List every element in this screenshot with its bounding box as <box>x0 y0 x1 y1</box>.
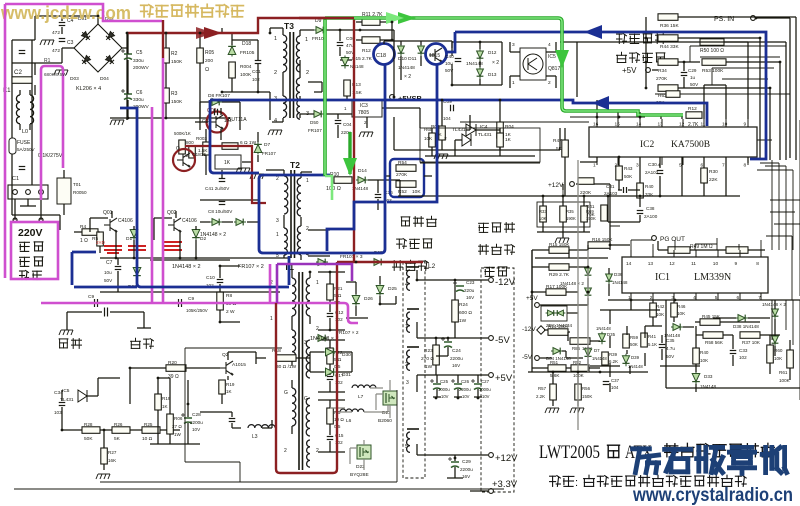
svg-text:Q817: Q817 <box>548 66 560 72</box>
svg-text:1N4148: 1N4148 <box>596 326 611 331</box>
winding L2 winding 5 <box>407 432 410 452</box>
resistor R04 1K <box>497 122 504 138</box>
svg-text:C26: C26 <box>461 379 470 384</box>
svg-text:TL431: TL431 <box>452 127 466 133</box>
svg-text:C4106: C4106 <box>182 218 197 224</box>
svg-text:D8 FR107: D8 FR107 <box>208 93 230 99</box>
wire <box>220 266 240 322</box>
winding T3 primary lower <box>283 96 287 118</box>
capacitor C13 102 <box>327 377 334 380</box>
svg-text:1815: 1815 <box>429 53 440 59</box>
resistor R49 1M <box>668 247 690 254</box>
highlight trace purple T1 <box>277 264 352 281</box>
diode D35 <box>598 332 605 344</box>
svg-text:R26: R26 <box>114 422 123 427</box>
svg-text:500K/1K: 500K/1K <box>174 131 191 136</box>
resistor R19b <box>219 380 226 394</box>
wire <box>774 300 776 356</box>
winding T1 sec 1 <box>306 278 310 316</box>
svg-text:T01: T01 <box>73 182 81 187</box>
svg-text:R34: R34 <box>658 68 667 74</box>
resistor R24 <box>452 300 459 322</box>
wire <box>360 30 560 150</box>
svg-text:10K: 10K <box>424 136 433 141</box>
svg-text:10: 10 <box>722 122 728 128</box>
svg-text:R2: R2 <box>171 51 178 57</box>
resistor R2 <box>163 48 170 63</box>
ground <box>40 40 54 45</box>
wire <box>420 122 620 250</box>
svg-text:R17 100K: R17 100K <box>546 284 568 290</box>
svg-text:270K: 270K <box>656 76 668 82</box>
svg-text:R15 150K: R15 150K <box>549 242 570 247</box>
svg-text:R04: R04 <box>505 124 514 130</box>
terminal +12V mid <box>570 182 575 187</box>
svg-text:4: 4 <box>548 42 551 48</box>
capacitor C6 330u/200WV <box>121 89 132 100</box>
svg-text:10V: 10V <box>192 427 201 432</box>
highlight trace green T3 drop center <box>324 20 326 175</box>
svg-text:16K: 16K <box>108 458 117 463</box>
wire <box>14 482 504 489</box>
svg-text:R29 2.7K: R29 2.7K <box>549 272 570 278</box>
ground <box>545 408 559 413</box>
wire <box>318 272 345 330</box>
wire <box>580 157 748 222</box>
svg-text:C2: C2 <box>14 69 22 76</box>
svg-text:220K: 220K <box>580 190 592 196</box>
svg-text:10K: 10K <box>539 216 547 221</box>
highlight trace navy bottom H <box>74 286 137 289</box>
winding T1 primary upper <box>292 278 296 316</box>
svg-text:10V: 10V <box>441 394 449 399</box>
label cold-ground <box>131 338 141 348</box>
diode D29 <box>133 266 141 279</box>
svg-text:13: 13 <box>658 122 664 128</box>
resistor R25 <box>142 427 160 434</box>
IC1 pins <box>630 293 632 300</box>
svg-text:D1: D1 <box>126 236 132 242</box>
wire <box>300 30 312 118</box>
diode D15 1N4148 <box>341 56 349 69</box>
resistor R52 <box>571 365 589 372</box>
svg-text:680K/0.5W: 680K/0.5W <box>44 72 67 77</box>
svg-text:1: 1 <box>305 37 308 43</box>
svg-text:2A102: 2A102 <box>645 170 659 175</box>
wire <box>608 300 800 388</box>
optocoupler IC5 PC817 <box>520 48 546 80</box>
wire <box>532 245 630 300</box>
navy arrow left <box>584 25 602 39</box>
diode D9 FR107 <box>314 27 326 34</box>
svg-text:R37 10K: R37 10K <box>742 340 761 345</box>
capacitor C8 10u/50V <box>219 202 226 205</box>
svg-text:R59: R59 <box>630 335 639 340</box>
diode D36a <box>585 266 592 278</box>
svg-text:1W: 1W <box>425 364 433 370</box>
svg-text:3: 3 <box>406 380 409 386</box>
highlight trace navy T2 loop <box>259 175 385 253</box>
transformer T01 R0050 <box>57 178 71 204</box>
diode D13 <box>477 67 484 79</box>
svg-text:IC2: IC2 <box>640 140 655 150</box>
capacitor C3 <box>59 39 66 42</box>
resistor R28 <box>82 427 100 434</box>
capacitor C15 102 <box>327 437 334 440</box>
wire <box>15 199 41 220</box>
svg-text:150K: 150K <box>171 59 183 65</box>
svg-text:KL206 × 4: KL206 × 4 <box>76 86 101 92</box>
svg-text:10K: 10K <box>700 358 709 363</box>
wire <box>537 184 590 238</box>
wire <box>206 129 252 178</box>
svg-text:R49 1M Ω: R49 1M Ω <box>690 244 713 250</box>
resistor R47 5K <box>562 140 569 157</box>
capacitor C25 1000u/10V <box>430 379 441 390</box>
svg-text:R52: R52 <box>398 189 407 195</box>
wire <box>430 100 540 150</box>
highlight trace maroon Q link <box>185 146 266 203</box>
svg-text:104: 104 <box>224 118 232 123</box>
svg-text:D25: D25 <box>388 286 397 292</box>
svg-text:220u: 220u <box>464 288 475 293</box>
wire <box>12 215 60 230</box>
highlight box R54 <box>390 159 424 197</box>
svg-text:D03: D03 <box>70 76 79 82</box>
resistor R06 <box>167 414 174 434</box>
terminal -12V out <box>489 278 494 283</box>
svg-text:7: 7 <box>722 163 725 169</box>
svg-text:L2: L2 <box>428 263 436 270</box>
svg-text:R0050: R0050 <box>73 190 87 195</box>
resistor R001 6R 1W <box>222 143 238 150</box>
resistor R18 <box>276 355 296 362</box>
ground <box>555 238 569 243</box>
svg-text:200WV: 200WV <box>133 65 150 71</box>
diode D30 <box>324 348 337 356</box>
svg-text:2A100: 2A100 <box>644 214 658 219</box>
svg-text:-5V: -5V <box>522 354 533 361</box>
label (chinese) <box>20 242 30 251</box>
capacitor C10 102 <box>217 280 224 283</box>
svg-text:R57: R57 <box>538 386 547 391</box>
diode D5 <box>210 219 222 226</box>
transistor Q2 A1015 <box>220 361 233 375</box>
wire <box>690 46 786 79</box>
svg-text:22K: 22K <box>709 177 718 183</box>
resistor R12b 2.7K <box>686 112 702 119</box>
svg-text:C4106: C4106 <box>118 218 133 224</box>
wire <box>165 33 167 118</box>
capacitor C28 2200u/10V <box>181 413 192 424</box>
wire <box>240 390 397 482</box>
winding T2 secondary lower <box>297 226 301 255</box>
wire <box>130 352 352 404</box>
svg-text:A1015: A1015 <box>232 362 246 368</box>
svg-text:R61: R61 <box>779 370 788 375</box>
wire <box>200 102 240 130</box>
wire <box>292 270 310 434</box>
svg-text:4: 4 <box>274 118 277 124</box>
diode D26 <box>352 294 360 307</box>
wire <box>318 400 345 452</box>
highlight trace green light tail <box>325 176 332 200</box>
highlight trace maroon stub <box>162 20 164 58</box>
svg-text:C3: C3 <box>67 40 74 46</box>
box R33/R35/R69 <box>537 202 590 227</box>
resistor R53b 15K <box>726 247 748 254</box>
highlight circle Q03 <box>207 112 228 133</box>
terminal PS.IN <box>751 16 756 21</box>
highlight trace magenta top <box>5 4 162 21</box>
svg-text:2200u: 2200u <box>460 467 473 472</box>
svg-text:11: 11 <box>691 261 696 267</box>
wire <box>150 378 200 444</box>
capacitor C35 4.7u/50V <box>659 345 666 348</box>
svg-text:12: 12 <box>669 261 675 267</box>
MOSFET D23 B2060 <box>383 391 397 405</box>
svg-text:15: 15 <box>615 122 621 128</box>
winding T2 secondary upper <box>297 178 301 216</box>
svg-text:R58 56K: R58 56K <box>705 340 724 345</box>
svg-text:190K: 190K <box>566 216 576 221</box>
MOSFET D22 BYQ28E <box>357 445 371 459</box>
svg-text:+12V: +12V <box>548 182 564 189</box>
svg-text:-5V: -5V <box>495 335 510 346</box>
svg-text:Q02: Q02 <box>167 210 177 216</box>
svg-text:10K: 10K <box>677 311 686 316</box>
label power-factor 3 <box>393 261 403 271</box>
svg-text:L3: L3 <box>252 434 258 440</box>
capacitor C02 104 <box>215 109 218 116</box>
resistor R68 <box>578 178 594 185</box>
wire <box>195 108 221 140</box>
wire <box>766 200 800 300</box>
svg-text:R43: R43 <box>624 166 633 171</box>
svg-text:3: 3 <box>276 218 279 224</box>
highlight trace magenta bottom <box>41 303 358 323</box>
terminal +5V <box>646 68 651 73</box>
label power-factor 2 <box>397 239 407 249</box>
wire <box>12 40 32 215</box>
svg-text:D30: D30 <box>342 352 351 358</box>
terminal -12V diamond <box>537 326 545 334</box>
ground <box>434 154 448 159</box>
svg-text:D2: D2 <box>200 236 206 242</box>
resistor R51 <box>548 365 566 372</box>
svg-text:D14: D14 <box>358 168 367 174</box>
resistor R35 <box>560 206 567 222</box>
wire <box>772 120 800 260</box>
navy arrow left 2 <box>592 96 609 110</box>
svg-text:L0: L0 <box>22 129 28 135</box>
svg-text:KA7500B: KA7500B <box>671 140 710 150</box>
svg-text:5: 5 <box>405 444 408 450</box>
inductor L7 <box>352 385 376 388</box>
svg-text:R004: R004 <box>240 64 252 70</box>
wire <box>63 170 65 215</box>
svg-text:C40: C40 <box>445 54 454 60</box>
svg-text:+5VSB: +5VSB <box>398 94 423 103</box>
terminal +12V out <box>489 453 494 458</box>
winding T1 sec 2 <box>306 340 310 378</box>
wire <box>658 241 765 250</box>
watermark (gold chinese) <box>141 5 153 17</box>
diode Dt2 <box>316 335 328 342</box>
capacitor C1 <box>19 167 26 170</box>
green arrow right <box>398 12 416 24</box>
svg-text:102: 102 <box>739 355 747 360</box>
svg-text:2: 2 <box>306 70 309 76</box>
svg-text:10V: 10V <box>462 394 470 399</box>
diode D10 <box>398 44 405 56</box>
svg-text:C5: C5 <box>136 50 143 56</box>
highlight trace purple drop <box>276 264 279 303</box>
svg-text:1000u: 1000u <box>438 387 450 392</box>
svg-text:10K: 10K <box>412 189 421 195</box>
svg-text:330u: 330u <box>133 58 144 64</box>
terminal +3.3V out <box>489 489 494 494</box>
highlight trace green main center <box>325 18 683 115</box>
svg-text:1K: 1K <box>226 389 233 394</box>
highlight trace magenta riser <box>269 264 272 303</box>
svg-text:R51: R51 <box>550 360 559 365</box>
resistor R61 <box>787 350 794 368</box>
transistor Q C1815 circled navy <box>429 48 442 62</box>
svg-text:3: 3 <box>304 340 307 346</box>
ground <box>110 120 124 125</box>
watermark kuangshi shouyinji (navy chinese) <box>633 449 659 473</box>
svg-text:2: 2 <box>548 80 551 86</box>
terminal <box>13 190 18 195</box>
winding T3 secondary mid <box>296 78 300 100</box>
svg-text:1N4148 × 2: 1N4148 × 2 <box>172 264 201 270</box>
resistor R69 <box>581 206 588 222</box>
wire <box>417 270 488 455</box>
resistor R16 <box>588 242 610 249</box>
svg-text:472: 472 <box>52 48 60 54</box>
svg-text:×: × <box>444 136 447 142</box>
svg-text:800: 800 <box>186 140 194 145</box>
svg-text:N4148: N4148 <box>350 64 364 69</box>
svg-text:FR107: FR107 <box>262 151 276 156</box>
svg-text:R54: R54 <box>398 160 407 166</box>
wire <box>384 41 452 80</box>
highlight trace navy T2 stairs <box>327 202 385 251</box>
wire <box>330 388 388 412</box>
svg-text:R20: R20 <box>168 360 177 366</box>
wire <box>690 46 712 85</box>
diode Dr1 <box>772 307 779 319</box>
svg-text:C8 10u/50V: C8 10u/50V <box>208 209 233 214</box>
svg-text:PG OUT: PG OUT <box>660 236 685 243</box>
svg-text:9: 9 <box>735 261 738 267</box>
svg-text:+5V: +5V <box>622 66 637 75</box>
resistor R50 <box>700 39 724 46</box>
resistor R004 100K <box>229 62 236 78</box>
resistor R19 <box>155 394 162 410</box>
resistor R86 <box>570 338 590 345</box>
resistor R21 <box>327 284 334 300</box>
label dc-output 3 <box>485 267 495 276</box>
resistor R34 <box>658 59 678 66</box>
capacitor C29b 2200u/16V <box>448 457 459 468</box>
highlight trace navy 5VSB bus <box>210 100 707 126</box>
svg-text:R27: R27 <box>108 450 117 455</box>
resistor R17 <box>546 289 566 296</box>
svg-text:C41 2u/50V: C41 2u/50V <box>205 186 230 191</box>
svg-text:R50 100 Ω: R50 100 Ω <box>700 48 724 54</box>
terminal -5V out <box>489 336 494 341</box>
capacitor C38 2A100 <box>637 211 644 214</box>
svg-text:Q01: Q01 <box>103 210 113 216</box>
highlight trace navy left drop <box>120 108 289 287</box>
svg-text:R14 150K: R14 150K <box>548 324 569 329</box>
winding L2 winding 2 <box>407 350 410 370</box>
svg-text:10K: 10K <box>774 356 783 361</box>
resistor R14 <box>548 329 568 336</box>
diode D25 <box>376 284 384 297</box>
svg-text:102: 102 <box>252 77 260 82</box>
svg-text:10: 10 <box>713 261 719 267</box>
capacitor C2 <box>19 51 26 54</box>
svg-text:100K: 100K <box>573 373 585 378</box>
svg-text:600 Ω: 600 Ω <box>459 310 472 316</box>
diode D38 <box>736 315 748 322</box>
wire <box>350 440 364 470</box>
transistor Q02 C4106 <box>168 218 181 232</box>
svg-text:+5V: +5V <box>495 373 513 384</box>
wire <box>560 42 748 119</box>
diode D6 <box>234 219 246 226</box>
resistor R40 33K <box>637 183 644 198</box>
inductor L2 dashed box <box>403 262 425 478</box>
winding L2 winding 4 <box>407 270 410 290</box>
svg-text:50K: 50K <box>84 436 93 442</box>
svg-text:2: 2 <box>276 176 279 182</box>
wire <box>110 33 230 118</box>
resistor R59 <box>623 334 630 348</box>
svg-text:R47: R47 <box>553 138 562 144</box>
resistor R39 <box>602 352 609 365</box>
wire <box>346 262 400 318</box>
wire <box>100 258 290 292</box>
svg-text:2×D: 2×D <box>96 240 105 246</box>
wire <box>137 327 151 329</box>
diode D04 <box>551 348 563 355</box>
wire <box>570 116 645 118</box>
svg-text:1: 1 <box>512 80 515 86</box>
highlight trace green main <box>325 18 683 115</box>
wire <box>20 205 36 207</box>
svg-text:1N4148: 1N4148 <box>612 280 628 285</box>
svg-text:Q03: Q03 <box>207 108 217 114</box>
resistor R15 <box>549 247 569 254</box>
svg-text:472: 472 <box>52 30 60 36</box>
svg-text:IC5: IC5 <box>62 388 70 394</box>
svg-text:D31: D31 <box>342 372 351 378</box>
svg-text:R56: R56 <box>582 386 591 391</box>
svg-text:16V: 16V <box>462 474 471 479</box>
svg-text:270 Ω: 270 Ω <box>421 356 434 362</box>
svg-text:2: 2 <box>316 326 319 332</box>
svg-text:T2: T2 <box>290 160 300 170</box>
svg-text:10u: 10u <box>104 270 112 275</box>
svg-text:10K: 10K <box>656 312 665 317</box>
capacitor C37 104 <box>603 382 610 385</box>
highlight trace green mid drop <box>348 132 351 174</box>
svg-text:2: 2 <box>274 70 277 76</box>
